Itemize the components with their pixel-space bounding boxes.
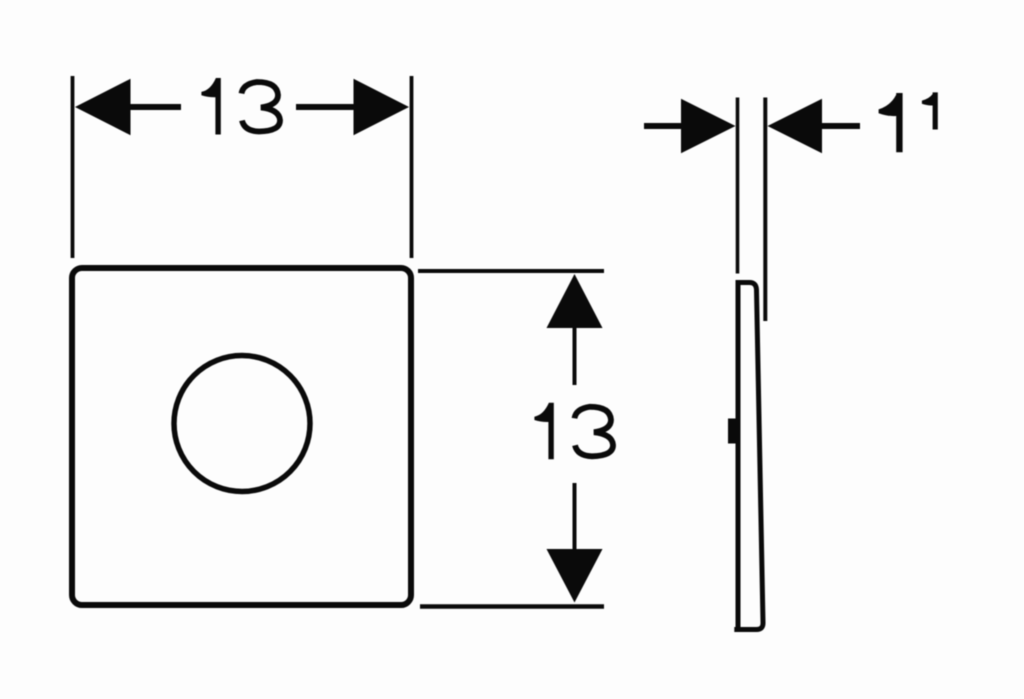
height dimension: bottom extension line [420, 604, 604, 609]
thickness dimension: left arrowhead (pointing right) [681, 99, 736, 153]
width dimension line: right segment [296, 104, 354, 110]
height dimension: bottom arrowhead [547, 549, 603, 603]
height label "13" [534, 403, 613, 460]
height dimension: top arrowhead [547, 274, 603, 328]
thickness dimension line: right segment [820, 123, 860, 129]
side view: plate profile outline [734, 283, 763, 632]
width dimension: right arrowhead [354, 79, 410, 135]
front view: actuator button circle [174, 356, 310, 492]
thickness dimension: left extension line [736, 98, 740, 274]
height dimension: top extension line [418, 269, 604, 273]
height dimension line: lower segment [573, 483, 577, 552]
width dimension: right extension line [410, 76, 414, 258]
height dimension line: upper segment [573, 326, 577, 385]
front view: flush plate outline [72, 268, 411, 605]
width dimension: left arrowhead [75, 79, 131, 135]
thickness dimension: right arrowhead (pointing left) [768, 99, 823, 153]
thickness label big "1" [879, 93, 903, 152]
width dimension line: left segment [129, 104, 181, 110]
thickness label superscript "1" [922, 92, 938, 129]
width dimension: left extension line [71, 76, 75, 258]
thickness dimension: right extension line [763, 98, 767, 322]
width label "13" [201, 78, 280, 135]
side view: mounting tab [728, 419, 738, 444]
thickness dimension line: left segment [644, 123, 684, 129]
